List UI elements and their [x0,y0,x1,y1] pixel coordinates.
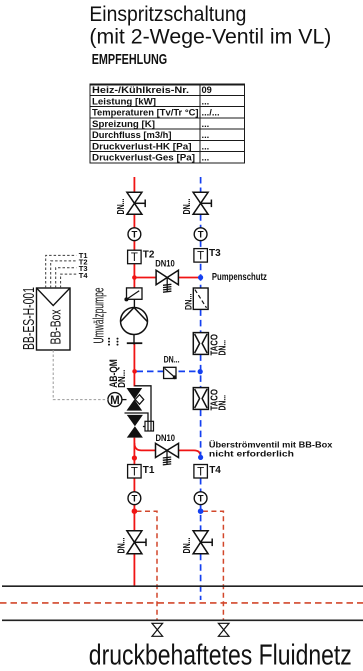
sensor wire T3 [56,268,77,288]
spring of lower DN10 [163,450,171,465]
thermometer bottom red [128,492,141,505]
strainer on blue line [193,288,208,309]
svg-text:Spreizung [K]: Spreizung [K] [92,119,155,129]
svg-text:Druckverlust-HK [Pa]: Druckverlust-HK [Pa] [92,141,192,151]
node J4b blue [198,508,204,514]
svg-text:T4: T4 [79,271,89,280]
diamond on control valve [135,395,144,405]
svg-text:DN...: DN... [217,340,228,356]
shutoff valve V1 top red [127,192,145,214]
data table frame [90,84,245,163]
svg-text:T: T [197,467,204,479]
network pipe upper black [2,585,363,587]
wire drain red dashed left [137,511,158,620]
node J1 red [132,275,137,280]
node J3 red [132,455,137,460]
spring of DN10 valve [163,278,171,293]
pump U1 Umwaelzpumpe [121,308,148,335]
network pipe lower black [2,619,363,621]
wire pumpenschutz red horizontal [137,277,199,279]
flange below pump [127,342,143,344]
svg-text:DN...: DN... [116,198,127,214]
overflow valve DN10 pumpenschutz [156,270,178,284]
balancing valve TACO upper [193,333,208,355]
svg-text:...: ... [202,141,210,151]
svg-text:DN...: DN... [116,537,127,553]
overflow valve DN10 lower [156,443,179,457]
wire drain red dashed right [203,511,224,620]
balancing valve black bowtie [127,415,143,438]
shutoff valve V2 top blue [193,192,211,214]
svg-text:...: ... [202,130,210,140]
svg-text:T4: T4 [209,465,221,476]
svg-text:Leistung [kW]: Leistung [kW] [92,96,156,106]
drain valve right [218,623,229,636]
bypass measuring lines black [125,386,152,427]
sensor T2 square [128,250,142,264]
motor actuator M [108,393,127,407]
pump setting dots [108,338,119,346]
pump controller box [124,288,142,302]
check valve on bypass [164,367,177,379]
wire pump outlet black [133,335,135,345]
thermometer top red [128,228,141,241]
wire bypass blue dashed horizontal [137,370,199,372]
node J4 red [132,508,138,514]
svg-text:...: ... [202,96,210,106]
wire overflow red with fillets [134,443,200,457]
node J1b blue [198,275,203,280]
svg-text:...: ... [202,119,210,129]
svg-text:DN...: DN... [116,370,128,388]
thermometer bottom blue [194,492,207,505]
svg-text:EMPFEHLUNG: EMPFEHLUNG [92,51,168,68]
shutoff valve bottom blue [193,531,212,554]
sensor T4 square [194,465,208,479]
svg-text:Druckverlust-Ges [Pa]: Druckverlust-Ges [Pa] [92,153,195,163]
sensor wire T2 [51,261,77,288]
svg-text:Pumpenschutz: Pumpenschutz [212,272,267,283]
sensor wire T4 [61,274,77,288]
svg-text:BB-ES-H-001: BB-ES-H-001 [21,287,38,350]
svg-text:(mit 2-Wege-Ventil im VL): (mit 2-Wege-Ventil im VL) [89,26,331,49]
svg-text:M: M [110,395,120,407]
svg-text:T2: T2 [143,250,155,261]
sensor wire T1 [46,255,77,288]
network pipe middle red dashed [0,602,363,604]
svg-text:T: T [198,230,204,241]
wire pump inlet black [133,299,135,308]
node J3b blue [198,455,203,460]
svg-text:nicht erforderlich: nicht erforderlich [209,448,294,458]
wire supply VL red vertical [133,177,135,586]
svg-text:09: 09 [202,85,212,95]
svg-text:DN...: DN... [182,198,193,214]
thermometer top blue [194,228,207,241]
svg-text:Durchfluss [m3/h]: Durchfluss [m3/h] [92,130,172,140]
wire return RL blue dashed vertical [200,177,202,600]
svg-text:BB-Box: BB-Box [48,309,65,344]
svg-text:.../...: .../... [202,108,220,118]
svg-text:Heiz-/Kühlkreis-Nr.: Heiz-/Kühlkreis-Nr. [92,85,189,95]
svg-text:DN...: DN... [182,537,193,553]
BB-Box controller [37,288,71,350]
svg-text:Umwälzpumpe: Umwälzpumpe [91,288,107,344]
svg-text:DN10: DN10 [155,259,175,269]
svg-text:DN10: DN10 [156,433,176,443]
shutoff valve bottom red [127,531,146,554]
sensor T1 square [128,465,142,479]
svg-text:DN...: DN... [217,395,228,411]
svg-text:DN...: DN... [164,354,180,364]
control valve Q1 black bowtie with diamond [127,388,143,411]
svg-text:T: T [198,494,204,505]
svg-text:Einspritzschaltung: Einspritzschaltung [89,3,246,26]
svg-text:T: T [131,230,137,241]
svg-text:...: ... [202,153,210,163]
balancing valve TACO lower [193,388,208,410]
node J2b blue [198,369,203,374]
svg-text:T: T [131,252,138,264]
svg-text:T3: T3 [209,248,221,259]
sensor T3 square [194,249,208,263]
svg-text:T: T [131,467,138,479]
svg-text:T: T [131,494,137,505]
svg-text:T1: T1 [143,465,155,476]
svg-text:druckbehaftetes Fluidnetz: druckbehaftetes Fluidnetz [89,640,352,671]
drain valve left [152,623,163,636]
measuring unit rect [145,421,154,431]
node J2 red [132,369,137,374]
svg-text:T: T [197,251,204,263]
svg-text:Temperaturen [Tv/Tr °C]: Temperaturen [Tv/Tr °C] [92,108,199,118]
wire BB-Box to motor gray [53,350,108,400]
svg-text:DN...: DN... [183,294,194,311]
